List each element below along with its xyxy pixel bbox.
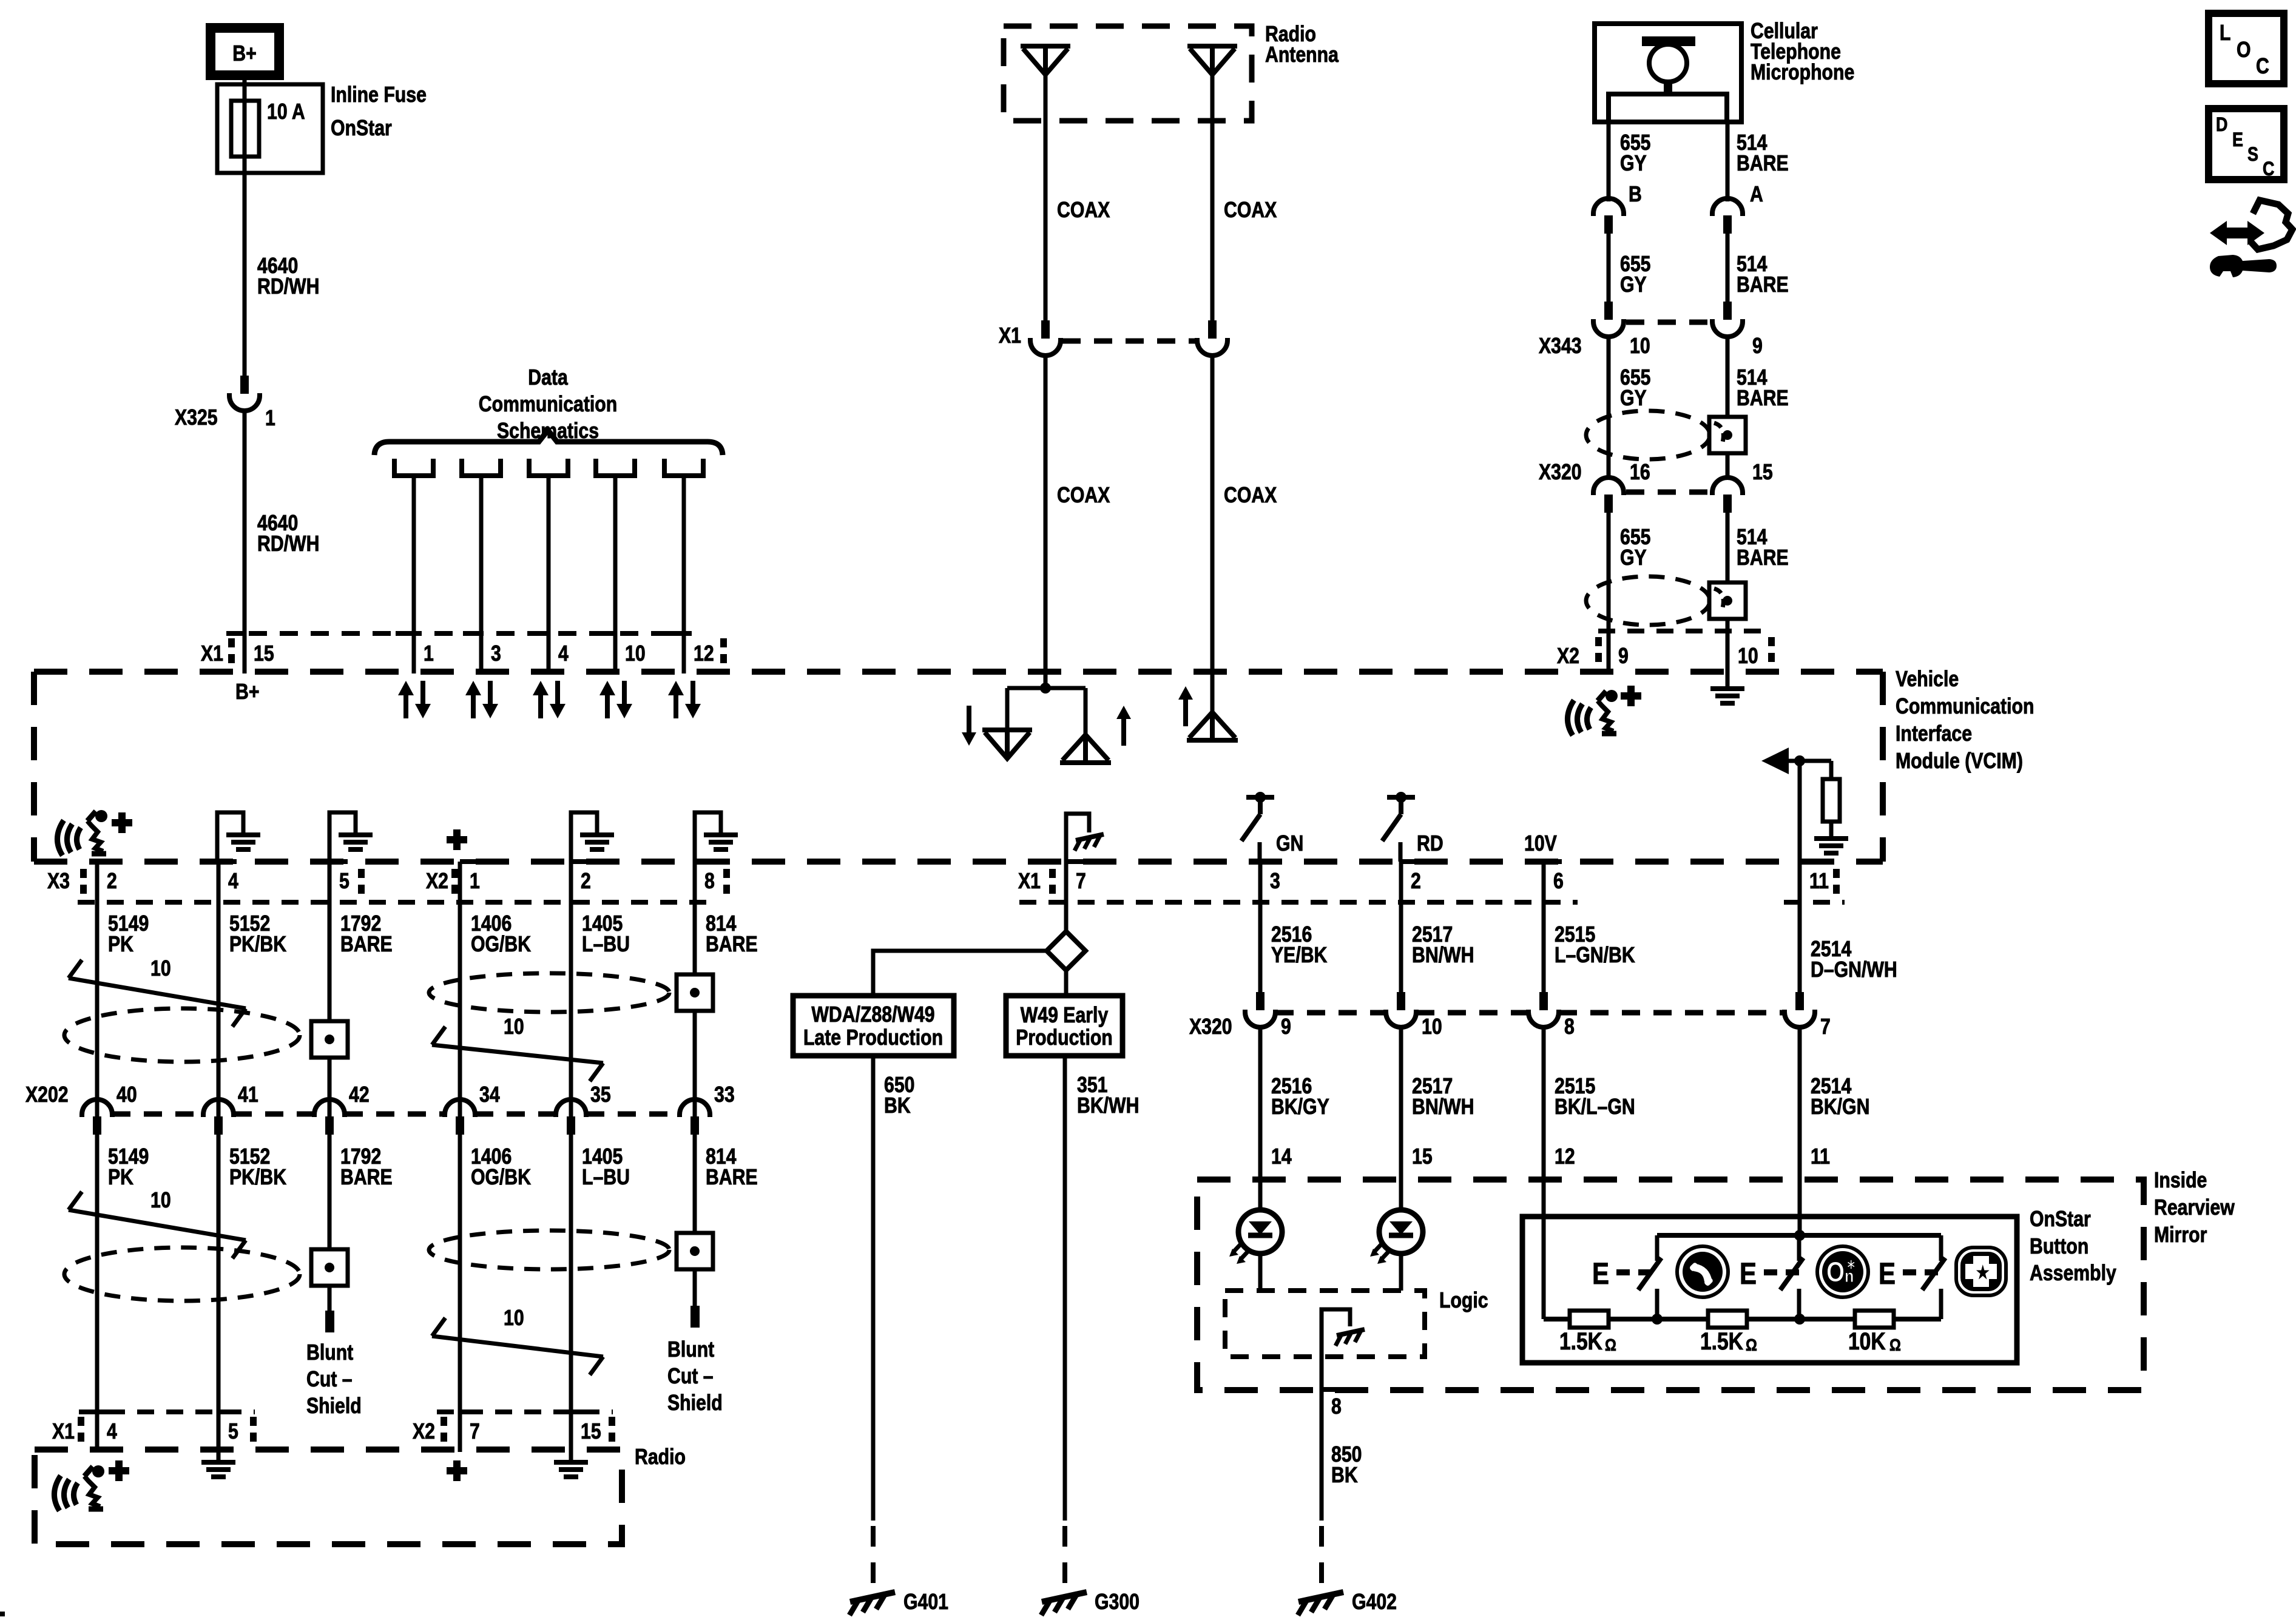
svg-text:WDA/Z88/W49: WDA/Z88/W49 bbox=[811, 1003, 934, 1027]
svg-text:Communication: Communication bbox=[479, 393, 617, 417]
svg-text:15: 15 bbox=[254, 642, 274, 666]
connector X320 pin 10 bbox=[1386, 992, 1416, 1027]
svg-text:OnStar: OnStar bbox=[331, 116, 392, 141]
svg-text:3: 3 bbox=[491, 642, 501, 666]
svg-text:G402: G402 bbox=[1352, 1590, 1397, 1615]
svg-text:Cut –: Cut – bbox=[306, 1368, 353, 1392]
svg-text:15: 15 bbox=[1412, 1145, 1433, 1169]
wire 514 BARE seg2 bbox=[1726, 234, 1730, 302]
svg-text:7: 7 bbox=[1820, 1015, 1831, 1039]
mic symbol bbox=[1642, 36, 1695, 46]
svg-text:L–BU: L–BU bbox=[582, 1166, 630, 1190]
svg-text:PK: PK bbox=[108, 933, 133, 957]
ground G401 bbox=[871, 1526, 876, 1585]
connector X1 coax left bbox=[1030, 320, 1061, 356]
data link stub 2 bbox=[462, 459, 501, 476]
shield ellipse mic lower bbox=[1586, 576, 1710, 625]
wire 5152 PK/BK lower bbox=[217, 1135, 221, 1452]
blunt cut shield left bbox=[325, 1311, 334, 1332]
svg-text:PK/BK: PK/BK bbox=[229, 1166, 286, 1190]
svg-text:GY: GY bbox=[1620, 546, 1647, 570]
internal chassis ground X1 pin 7 bbox=[1066, 814, 1089, 862]
pin 3 X1 bbox=[463, 631, 481, 636]
svg-text:Shield: Shield bbox=[667, 1391, 723, 1416]
internal ground X2 pin 8 bbox=[695, 812, 721, 862]
svg-text:Microphone: Microphone bbox=[1751, 61, 1854, 85]
connector X325 pin 1 bbox=[229, 376, 260, 411]
svg-text:14: 14 bbox=[1271, 1145, 1292, 1169]
svg-text:12: 12 bbox=[1555, 1145, 1575, 1169]
repair icon: wrench bbox=[2210, 255, 2277, 277]
svg-text:BARE: BARE bbox=[1737, 273, 1789, 297]
connector X1 pin 15 (B+) bbox=[226, 631, 245, 636]
repair icon: double arrow bbox=[2210, 221, 2264, 245]
svg-text:BARE: BARE bbox=[706, 933, 758, 957]
blunt cut shield right bbox=[690, 1306, 700, 1328]
svg-text:BN/WH: BN/WH bbox=[1412, 1095, 1474, 1119]
svg-text:C: C bbox=[2256, 55, 2269, 79]
ground G300 bbox=[1062, 1526, 1067, 1585]
node B+ bbox=[211, 28, 279, 75]
pin 2 bbox=[571, 859, 589, 864]
pin 1 bbox=[460, 859, 478, 864]
svg-text:B+: B+ bbox=[232, 42, 256, 66]
svg-text:BARE: BARE bbox=[1737, 546, 1789, 570]
svg-text:OG/BK: OG/BK bbox=[471, 933, 531, 957]
wire 2516 YE/BK bbox=[1258, 862, 1263, 992]
wire 814 BARE upper bbox=[693, 862, 697, 1116]
data link stub 5 bbox=[664, 459, 703, 476]
svg-text:D: D bbox=[2216, 114, 2227, 136]
svg-text:Assembly: Assembly bbox=[2030, 1261, 2116, 1286]
svg-text:10: 10 bbox=[150, 957, 171, 981]
onstar button assembly box bbox=[1522, 1217, 2017, 1363]
svg-text:10: 10 bbox=[504, 1306, 524, 1331]
bottom rail bbox=[1544, 1317, 1941, 1322]
svg-text:12: 12 bbox=[694, 642, 714, 666]
svg-text:Radio: Radio bbox=[635, 1445, 686, 1470]
svg-text:33: 33 bbox=[714, 1083, 735, 1107]
radio internal plus pin 7 bbox=[447, 1467, 467, 1474]
svg-text:1: 1 bbox=[424, 642, 434, 666]
svg-text:9: 9 bbox=[1281, 1015, 1291, 1039]
pin 10 X1 bbox=[597, 631, 615, 636]
svg-text:Blunt: Blunt bbox=[306, 1341, 353, 1365]
svg-text:Shield: Shield bbox=[306, 1394, 362, 1419]
lower pin dashed row bbox=[78, 900, 717, 905]
svg-text:BARE: BARE bbox=[1737, 387, 1789, 411]
wire 655 GY seg3 bbox=[1607, 335, 1611, 479]
wire 2517 BN/WH bbox=[1399, 862, 1403, 992]
svg-text:O: O bbox=[1826, 1257, 1845, 1288]
VCIM module dashed box bbox=[34, 669, 1883, 675]
wire 514 BARE seg4 bbox=[1726, 513, 1730, 673]
svg-text:✱: ✱ bbox=[1846, 1258, 1855, 1273]
svg-text:G300: G300 bbox=[1095, 1590, 1140, 1615]
svg-text:10: 10 bbox=[1630, 334, 1650, 359]
svg-text:RD: RD bbox=[1417, 832, 1443, 856]
wire 1792 BARE lower bbox=[328, 1135, 332, 1311]
svg-text:BARE: BARE bbox=[340, 933, 393, 957]
svg-text:10 A: 10 A bbox=[267, 100, 305, 124]
svg-text:3: 3 bbox=[1270, 869, 1280, 894]
svg-text:2: 2 bbox=[581, 869, 591, 894]
svg-text:5: 5 bbox=[228, 1420, 238, 1444]
phone button bbox=[1677, 1246, 1728, 1297]
internal ground X3 pin 4 bbox=[217, 812, 243, 862]
svg-text:GY: GY bbox=[1620, 387, 1647, 411]
radio connector pins dashed row bbox=[79, 1409, 255, 1414]
resistor 1.5K (2) bbox=[1708, 1311, 1747, 1328]
svg-text:A: A bbox=[1750, 183, 1763, 207]
connector mic A bbox=[1712, 198, 1743, 234]
svg-text:RD/WH: RD/WH bbox=[257, 532, 319, 556]
twisted pair marker X3 lower bbox=[69, 1210, 246, 1240]
svg-text:X1: X1 bbox=[1018, 869, 1041, 894]
svg-text:C: C bbox=[2263, 158, 2274, 180]
stray mark bottom-left bbox=[0, 1612, 5, 1616]
svg-text:6: 6 bbox=[1553, 869, 1564, 894]
svg-text:1.5K: 1.5K bbox=[1559, 1328, 1602, 1354]
wire 1792 BARE upper bbox=[328, 862, 332, 1116]
switch 1 (phone) bbox=[1655, 1235, 1660, 1261]
resistor 10K (3) bbox=[1855, 1311, 1894, 1328]
svg-text:Communication: Communication bbox=[1896, 695, 2034, 719]
svg-text:X3: X3 bbox=[47, 869, 70, 894]
shield box 1792 upper bbox=[311, 1021, 348, 1058]
svg-text:Antenna: Antenna bbox=[1265, 43, 1339, 67]
diversity antenna up bbox=[1084, 688, 1088, 735]
wire 2517 BN/WH to LED bbox=[1399, 1025, 1403, 1210]
svg-text:7: 7 bbox=[470, 1420, 480, 1444]
svg-text:GY: GY bbox=[1620, 152, 1647, 176]
svg-text:8: 8 bbox=[704, 869, 715, 894]
switch RD bbox=[1387, 795, 1415, 800]
wire 2514 D-GN/WH bbox=[1798, 862, 1802, 992]
connector X202 pin 40 bbox=[82, 1099, 112, 1135]
wire 650 BK bbox=[871, 1056, 876, 1521]
brace bbox=[374, 430, 723, 455]
svg-text:Logic: Logic bbox=[1439, 1289, 1488, 1313]
pin 1 X1 bbox=[396, 631, 414, 636]
resistor internal bbox=[1823, 779, 1840, 822]
data link stub 4 bbox=[596, 459, 635, 476]
logic dashed box bbox=[1225, 1291, 1425, 1357]
svg-text:5: 5 bbox=[339, 869, 349, 894]
wire 1405 L–BU upper bbox=[569, 862, 573, 1116]
svg-text:Ω: Ω bbox=[1746, 1336, 1757, 1354]
WDA/Z88/W49 Late Production box bbox=[793, 996, 954, 1056]
shield box mic lower bbox=[1709, 582, 1746, 619]
wire 850 BK bbox=[1320, 1389, 1324, 1521]
connector X343 pin 9 bbox=[1712, 302, 1743, 337]
svg-text:Module (VCIM): Module (VCIM) bbox=[1896, 749, 2023, 774]
shield ellipse X2 lower bbox=[429, 1230, 669, 1269]
pin 7 bbox=[1066, 859, 1084, 864]
svg-text:1: 1 bbox=[470, 869, 480, 894]
wire 655 GY seg1 bbox=[1607, 122, 1611, 201]
DESC legend box bbox=[2209, 109, 2284, 180]
svg-text:Interface: Interface bbox=[1896, 722, 1972, 746]
svg-text:10: 10 bbox=[625, 642, 646, 666]
svg-text:1: 1 bbox=[265, 407, 275, 431]
svg-text:D–GN/WH: D–GN/WH bbox=[1811, 958, 1897, 982]
svg-text:BK/GN: BK/GN bbox=[1811, 1095, 1869, 1119]
W49 Early Production box bbox=[1006, 996, 1123, 1056]
svg-text:Data: Data bbox=[528, 366, 568, 390]
wire 4640 RD/WH to VCIM X1-15 bbox=[243, 409, 247, 673]
svg-text:COAX: COAX bbox=[1224, 484, 1277, 508]
pin 8 bbox=[695, 859, 713, 864]
pin 2 bbox=[97, 859, 115, 864]
radio internal ground pin 15 bbox=[569, 1450, 573, 1461]
svg-text:GY: GY bbox=[1620, 273, 1647, 297]
svg-text:BK: BK bbox=[1331, 1463, 1358, 1488]
svg-text:Blunt: Blunt bbox=[667, 1338, 714, 1362]
connector X320 pin 7 bbox=[1784, 992, 1815, 1027]
svg-text:X325: X325 bbox=[175, 406, 218, 430]
radio pin 15 bbox=[571, 1409, 589, 1414]
svg-text:Ω: Ω bbox=[1605, 1336, 1616, 1354]
connector X2 pins 9/10 dashed outline bbox=[1598, 629, 1771, 633]
svg-text:2: 2 bbox=[107, 869, 117, 894]
svg-text:X320: X320 bbox=[1539, 461, 1582, 485]
svg-text:BARE: BARE bbox=[706, 1166, 758, 1190]
cellular telephone microphone box bbox=[1595, 24, 1741, 122]
svg-text:OG/BK: OG/BK bbox=[471, 1166, 531, 1190]
resistor 1.5K (1) bbox=[1570, 1311, 1609, 1328]
wire 2514 BK/GN bbox=[1798, 1025, 1802, 1235]
svg-text:16: 16 bbox=[1630, 461, 1650, 485]
svg-text:4: 4 bbox=[228, 869, 238, 894]
radio dashed box bbox=[35, 1450, 622, 1544]
twisted pair marker X2 upper bbox=[432, 1045, 603, 1063]
svg-text:OnStar: OnStar bbox=[2030, 1207, 2091, 1232]
emergency cross button bbox=[1956, 1247, 2006, 1295]
connector X320 pin 8 bbox=[1528, 992, 1559, 1027]
radio pin 7 bbox=[460, 1409, 478, 1414]
junction node antenna split bbox=[1044, 672, 1048, 688]
svg-text:34: 34 bbox=[479, 1083, 500, 1107]
shield box 1792 lower bbox=[311, 1249, 348, 1286]
svg-text:G401: G401 bbox=[903, 1590, 948, 1615]
data link stub 1 bbox=[394, 459, 433, 476]
svg-text:COAX: COAX bbox=[1057, 198, 1110, 223]
svg-text:1.5K: 1.5K bbox=[1700, 1328, 1743, 1354]
svg-text:PK: PK bbox=[108, 1166, 133, 1190]
svg-text:GN: GN bbox=[1276, 832, 1303, 856]
wire coax left to VCIM bbox=[1044, 354, 1048, 673]
ground G402 bbox=[1319, 1526, 1324, 1585]
svg-text:4: 4 bbox=[107, 1420, 117, 1444]
antenna 1 bbox=[1021, 44, 1070, 49]
twisted pair marker X2 lower bbox=[432, 1336, 603, 1357]
internal left arrow + resistor to ground (pin 11) bbox=[1761, 748, 1789, 774]
svg-text:BN/WH: BN/WH bbox=[1412, 944, 1474, 968]
svg-text:Mirror: Mirror bbox=[2154, 1223, 2207, 1247]
internal plus X2 pin 1 bbox=[447, 836, 467, 843]
data pins dashed row bbox=[249, 631, 692, 636]
connector X202 pin 33 bbox=[680, 1099, 710, 1135]
wire 5152 PK/BK upper bbox=[217, 862, 221, 1116]
svg-text:E: E bbox=[1740, 1257, 1757, 1291]
svg-text:35: 35 bbox=[590, 1083, 611, 1107]
svg-text:4: 4 bbox=[558, 642, 569, 666]
svg-text:15: 15 bbox=[1752, 461, 1773, 485]
internal ground X2 pin 2 bbox=[571, 812, 597, 862]
wire branch to W49 box bbox=[1064, 970, 1069, 996]
svg-text:Button: Button bbox=[2030, 1235, 2088, 1259]
connector X1 coax right bbox=[1197, 320, 1227, 356]
svg-text:11: 11 bbox=[1811, 1145, 1830, 1169]
diversity antenna down bbox=[1005, 688, 1010, 730]
wire 2515 BK/L-GN bbox=[1542, 1025, 1546, 1319]
svg-text:10: 10 bbox=[1738, 644, 1758, 669]
connector X202 pin 42 bbox=[314, 1099, 345, 1135]
wire coax right to VCIM bbox=[1210, 354, 1215, 673]
pin 11 bbox=[1800, 859, 1818, 864]
fuse F1 10A OnStar inline fuse bbox=[217, 84, 323, 173]
radio pin 4 bbox=[97, 1409, 115, 1414]
radio pin 5 bbox=[218, 1409, 237, 1414]
svg-text:Cut –: Cut – bbox=[667, 1365, 714, 1389]
svg-text:X2: X2 bbox=[413, 1420, 435, 1444]
svg-text:X1: X1 bbox=[999, 324, 1021, 348]
antenna 2 internal bbox=[1210, 672, 1215, 712]
svg-text:Late Production: Late Production bbox=[803, 1026, 943, 1050]
svg-text:11: 11 bbox=[1809, 869, 1829, 894]
LOC legend box bbox=[2209, 13, 2284, 84]
svg-text:Rearview: Rearview bbox=[2154, 1196, 2235, 1220]
wire 2516 BK/GY to LED bbox=[1258, 1025, 1263, 1210]
svg-text:BK/L–GN: BK/L–GN bbox=[1555, 1095, 1635, 1119]
switch 3 (emergency) bbox=[1939, 1235, 1943, 1261]
internal ground X2 pin 10 bbox=[1726, 672, 1730, 687]
svg-text:L: L bbox=[2220, 21, 2230, 46]
svg-text:COAX: COAX bbox=[1057, 484, 1110, 508]
wire 5149 PK upper bbox=[95, 862, 100, 1116]
internal ground X3 pin 5 bbox=[329, 812, 356, 862]
LED 2 bbox=[1370, 1210, 1423, 1264]
pin 5 bbox=[329, 859, 348, 864]
svg-text:Production: Production bbox=[1016, 1026, 1113, 1050]
connector X320 pin 16 bbox=[1593, 478, 1624, 513]
connector X320 pin 9 bbox=[1245, 992, 1275, 1027]
top rail bbox=[1657, 1233, 1941, 1238]
antenna 2 bbox=[1187, 44, 1237, 49]
pin 12 X1 bbox=[666, 631, 684, 636]
data link stub 3 bbox=[529, 459, 568, 476]
svg-text:Ω: Ω bbox=[1889, 1336, 1901, 1354]
shield ellipse X2 upper bbox=[429, 973, 669, 1012]
svg-text:YE/BK: YE/BK bbox=[1271, 944, 1327, 968]
svg-text:Vehicle: Vehicle bbox=[1896, 667, 1959, 692]
connector X202 pin 41 bbox=[203, 1099, 234, 1135]
connector X343 pin 10 bbox=[1593, 302, 1624, 337]
wire 514 BARE seg3 bbox=[1726, 335, 1730, 479]
internal mic icon X2-9 bbox=[1567, 690, 1618, 735]
switch GN bbox=[1246, 795, 1274, 800]
svg-text:10K: 10K bbox=[1848, 1328, 1886, 1354]
svg-text:Inside: Inside bbox=[2154, 1169, 2207, 1193]
svg-text:X1: X1 bbox=[52, 1420, 75, 1444]
svg-text:★: ★ bbox=[1977, 1264, 1989, 1281]
wire 5149 PK lower bbox=[95, 1135, 100, 1452]
svg-text:7: 7 bbox=[1076, 869, 1086, 894]
connector mic B bbox=[1593, 198, 1624, 234]
repair icon: connector outline bbox=[2251, 200, 2292, 249]
svg-text:E: E bbox=[2232, 129, 2243, 151]
svg-text:15: 15 bbox=[581, 1420, 601, 1444]
shield box mic upper bbox=[1709, 417, 1746, 453]
svg-text:X2: X2 bbox=[426, 869, 448, 894]
wire 655 GY seg4 bbox=[1607, 513, 1611, 673]
svg-text:E: E bbox=[1592, 1257, 1609, 1291]
wire 351 BK/WH bbox=[1063, 1056, 1067, 1521]
wire 1406 OG/BK lower bbox=[458, 1135, 462, 1452]
svg-text:9: 9 bbox=[1752, 334, 1763, 359]
twisted pair marker X3 upper bbox=[69, 978, 246, 1008]
wire 814 BARE lower bbox=[693, 1135, 697, 1311]
pin 4 X1 bbox=[530, 631, 549, 636]
shield ellipse X3 upper bbox=[64, 1008, 300, 1062]
inside rearview mirror dashed box bbox=[1197, 1180, 2144, 1390]
svg-text:BARE: BARE bbox=[340, 1166, 393, 1190]
svg-text:8: 8 bbox=[1331, 1395, 1342, 1419]
wire X1-7 to diamond bbox=[1064, 862, 1069, 933]
svg-text:41: 41 bbox=[238, 1083, 258, 1107]
pin 4 bbox=[218, 859, 237, 864]
splice diamond bbox=[1047, 931, 1086, 970]
radio internal ground pin 5 bbox=[217, 1450, 221, 1461]
wire 1405 L–BU lower bbox=[569, 1135, 573, 1452]
svg-text:BARE: BARE bbox=[1737, 152, 1789, 176]
svg-text:42: 42 bbox=[349, 1083, 370, 1107]
shield ellipse X3 lower bbox=[64, 1247, 300, 1301]
svg-text:40: 40 bbox=[116, 1083, 137, 1107]
svg-text:S: S bbox=[2247, 144, 2258, 166]
wire B+ to fuse bbox=[243, 75, 247, 103]
svg-text:E: E bbox=[1879, 1257, 1896, 1291]
svg-text:COAX: COAX bbox=[1224, 198, 1277, 223]
svg-text:BK/GY: BK/GY bbox=[1271, 1095, 1329, 1119]
shield ellipse mic upper bbox=[1586, 411, 1710, 459]
svg-text:L–BU: L–BU bbox=[582, 933, 630, 957]
radio antenna assembly dashed box bbox=[1004, 26, 1252, 121]
svg-text:BK/WH: BK/WH bbox=[1077, 1094, 1139, 1118]
svg-text:PK/BK: PK/BK bbox=[229, 933, 286, 957]
wire 514 BARE seg1 bbox=[1726, 122, 1730, 201]
svg-text:B+: B+ bbox=[235, 680, 259, 704]
wire 655 GY seg2 bbox=[1607, 234, 1611, 302]
logic internal chassis ground bbox=[1322, 1309, 1350, 1389]
svg-text:9: 9 bbox=[1618, 644, 1629, 669]
svg-text:X2: X2 bbox=[1557, 644, 1579, 669]
svg-text:10: 10 bbox=[1422, 1015, 1442, 1039]
arrow down (rx) bbox=[967, 706, 971, 736]
shield box 814 upper bbox=[677, 974, 713, 1011]
svg-text:X202: X202 bbox=[25, 1083, 69, 1107]
svg-text:RD/WH: RD/WH bbox=[257, 275, 319, 299]
wire 2515 L–GN/BK bbox=[1542, 862, 1546, 992]
svg-text:X343: X343 bbox=[1539, 334, 1582, 359]
OnStar button bbox=[1817, 1246, 1868, 1297]
connector X320 pin 15 bbox=[1712, 478, 1743, 513]
connector X202 pin 35 bbox=[556, 1099, 586, 1135]
radio internal mic icon bbox=[54, 1465, 104, 1511]
arrow up (tx) bbox=[1121, 715, 1126, 746]
svg-text:L–GN/BK: L–GN/BK bbox=[1555, 944, 1635, 968]
